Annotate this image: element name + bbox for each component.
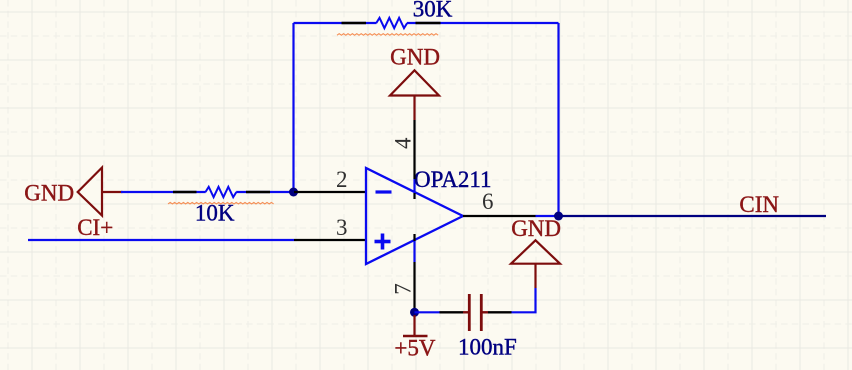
+5V label — [394, 336, 435, 361]
pin 2 — [294, 191, 367, 193]
wire feedback right vertical — [557, 23, 559, 216]
wire pin7 to supply node — [413, 241, 415, 262]
wire output to junction — [536, 215, 559, 217]
label CIN — [739, 192, 779, 217]
capacitor 100nF — [440, 294, 512, 331]
pin 7 number — [390, 283, 415, 295]
svg-text:CIN: CIN — [739, 192, 779, 217]
wire CI+ non-inverting input — [28, 239, 294, 241]
resistor 30K — [342, 18, 441, 28]
pin 4 — [413, 120, 415, 199]
svg-text:CI+: CI+ — [77, 215, 113, 240]
resistor 10K orange error squiggle — [168, 202, 274, 204]
svg-text:GND: GND — [24, 181, 74, 206]
wire right GND down to capacitor — [511, 288, 536, 312]
svg-text:10K: 10K — [195, 201, 235, 226]
svg-text:3: 3 — [336, 215, 348, 240]
svg-text:6: 6 — [482, 189, 494, 214]
wire inverting input — [121, 191, 294, 193]
pin 3 — [294, 239, 367, 241]
junction dot supply node — [410, 308, 419, 317]
svg-text:OPA211: OPA211 — [414, 167, 492, 192]
op-amp plus symbol — [375, 234, 391, 250]
svg-text:100nF: 100nF — [458, 335, 517, 360]
resistor 10K — [173, 187, 270, 197]
pin 6 — [463, 215, 536, 217]
pin 3 number — [336, 215, 348, 240]
GND label left — [24, 181, 74, 206]
svg-text:2: 2 — [336, 167, 348, 192]
resistor 30K orange error squiggle — [337, 34, 438, 36]
GND power port top — [390, 70, 439, 120]
resistor 10K value label — [195, 201, 235, 226]
GND label top — [390, 44, 440, 69]
GND power port right — [511, 240, 560, 288]
pin 7 — [413, 234, 415, 309]
wire feedback top horizontal — [294, 22, 559, 24]
label CI+ — [77, 215, 113, 240]
op-amp U1 OPA211 triangle — [366, 168, 463, 264]
wire CIN output net — [559, 215, 827, 217]
svg-text:7: 7 — [390, 283, 415, 295]
wire feedback left vertical — [292, 23, 294, 192]
GND power port left — [78, 168, 123, 216]
junction dot output node — [554, 212, 563, 221]
wire supply node to capacitor — [415, 311, 441, 313]
junction dot inverting node — [289, 188, 298, 197]
op-amp designator OPA211 — [414, 167, 492, 192]
wire pin4 to GND — [413, 179, 415, 193]
svg-text:GND: GND — [390, 44, 440, 69]
pin 6 number — [482, 189, 494, 214]
GND label right — [511, 216, 561, 241]
svg-text:30K: 30K — [413, 0, 453, 22]
op-amp minus symbol — [376, 190, 392, 193]
svg-text:+5V: +5V — [394, 336, 435, 361]
svg-text:4: 4 — [390, 137, 415, 149]
pin 2 number — [336, 167, 348, 192]
svg-text:GND: GND — [511, 216, 561, 241]
capacitor 100nF value label — [458, 335, 517, 360]
resistor 30K value label — [413, 0, 453, 22]
+5V power port — [403, 315, 428, 336]
pin 4 number — [390, 137, 415, 149]
